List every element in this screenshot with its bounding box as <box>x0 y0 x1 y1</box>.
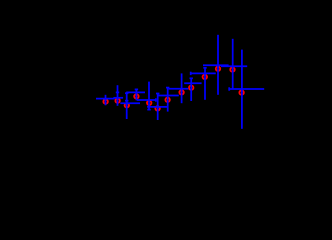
error bars P8 <box>169 88 189 90</box>
error bars P5 <box>137 99 156 101</box>
error bars P12 <box>221 65 247 67</box>
error bars P1 <box>96 98 115 100</box>
data point circle P4 <box>134 94 138 98</box>
data point circle P6 <box>155 106 159 110</box>
data point circle P12 <box>230 67 234 71</box>
data point circle P3 <box>125 103 129 107</box>
data point circle P13 <box>239 90 243 94</box>
data point circle P7 <box>165 98 169 102</box>
error bars P4 <box>126 91 145 93</box>
data point circle P9 <box>189 86 193 90</box>
data point circle P2 <box>115 99 119 103</box>
error bars P9 <box>184 82 201 84</box>
data point circle P11 <box>216 67 220 71</box>
data point circle P5 <box>147 101 151 105</box>
error bars P2 <box>113 97 123 99</box>
data point circle P1 <box>103 99 107 103</box>
error bars P6 <box>147 106 167 108</box>
error bars P3 <box>120 102 140 104</box>
data point circle P10 <box>203 75 207 79</box>
error bars P11 <box>203 64 229 66</box>
data point circle P8 <box>179 90 183 94</box>
error bars P10 <box>191 72 216 74</box>
error bars P7 <box>158 95 179 97</box>
error bars P13 <box>229 88 264 90</box>
